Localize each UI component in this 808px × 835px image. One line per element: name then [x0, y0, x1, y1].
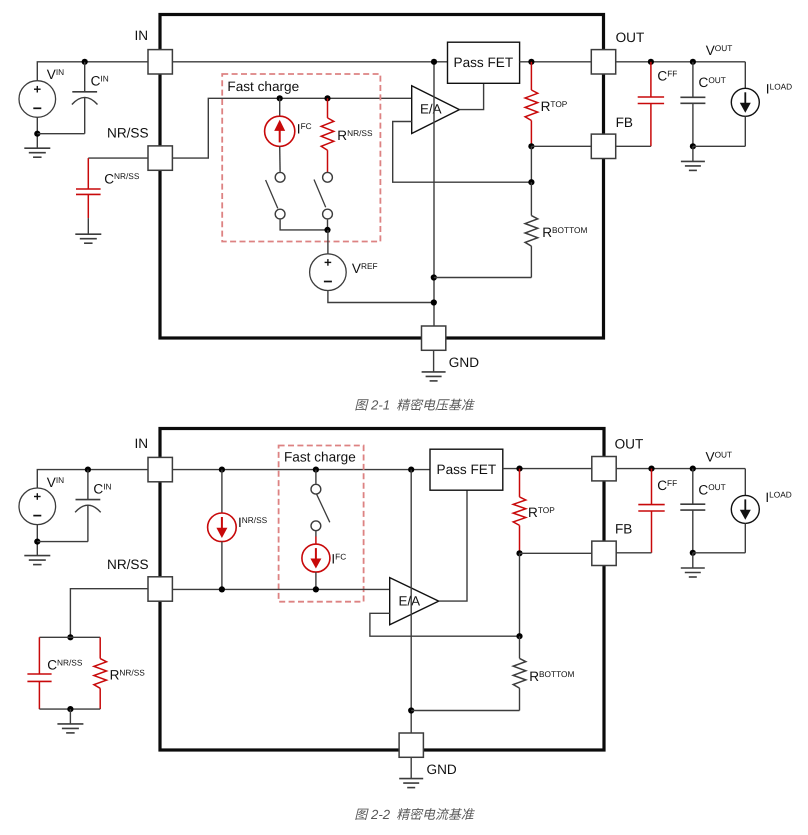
wire FB node down to RBOTTOM (top) [530, 146, 532, 182]
current source IFC (bottom) [302, 544, 330, 572]
wire RC to ground (bottom) [69, 709, 71, 724]
wire E/A output to Pass FET gate (bottom) [439, 490, 467, 601]
svg-text:IFC: IFC [331, 551, 346, 566]
svg-text:CFF: CFF [657, 69, 677, 84]
resistor RTOP (bottom) [513, 469, 526, 554]
wire NR/SS pin to CNR/SS (top) [88, 157, 148, 159]
wire COUT ground stem (bottom) [692, 553, 694, 568]
svg-text:VOUT: VOUT [706, 43, 733, 58]
label RNR/SS (bottom) [110, 667, 146, 682]
ground VIN (top) [24, 148, 50, 157]
junction IN rail / ground rail (bottom) [408, 467, 414, 473]
label CIN (bottom) [93, 481, 111, 496]
resistor RTOP (top) [525, 62, 538, 147]
svg-text:CFF: CFF [657, 478, 677, 493]
label RTOP (bottom) [528, 505, 555, 520]
wire ILOAD return (top) [693, 145, 745, 147]
ground GND pin (top) [422, 372, 446, 381]
label CNR/SS (top) [104, 171, 140, 186]
junction CIN top (top) [82, 59, 88, 65]
wire VIN bottom (top) [36, 117, 38, 148]
ground COUT (bottom) [681, 568, 705, 577]
ground COUT (top) [681, 161, 705, 170]
current source INR/SS (bottom) [208, 470, 237, 590]
caption figure 2-2 [355, 807, 475, 822]
label RBOTTOM (top) [542, 225, 587, 240]
svg-text:Pass FET: Pass FET [454, 55, 514, 70]
junction COUT bottom (bottom) [690, 550, 696, 556]
capacitor CIN (top) [37, 62, 97, 134]
junction VIN bottom (bottom) [34, 539, 40, 545]
wire COUT ground stem (top) [692, 146, 694, 161]
wire VREF top lead (top) [327, 230, 329, 254]
svg-text:CNR/SS: CNR/SS [47, 657, 83, 672]
svg-text:CIN: CIN [93, 481, 111, 496]
wire E/A inverting input to FB divider (bottom) [370, 613, 520, 636]
svg-text:RBOTTOM: RBOTTOM [529, 669, 574, 684]
resistor RBOTTOM (top) [434, 182, 538, 277]
pin NR/SS (bottom) [148, 577, 172, 601]
wire CFF to FB pin (bottom) [616, 552, 651, 554]
svg-text:Pass FET: Pass FET [437, 462, 497, 477]
junction INR/SS top (bottom) [219, 467, 225, 473]
ground RC network (bottom) [57, 724, 83, 733]
wire NR/SS pin to error amp noninverting input (top) [172, 98, 411, 158]
junction VIN bottom (top) [34, 131, 40, 137]
wire OUT pin to VOUT rail (top) [616, 61, 746, 63]
block Pass FET (top) [448, 42, 520, 83]
capacitor CNR/SS (bottom) [27, 637, 51, 709]
label IN (bottom) [135, 436, 149, 451]
wire Pass FET to OUT pin (top) [520, 61, 592, 63]
label CFF (bottom) [657, 478, 677, 493]
label CNR/SS (bottom) [47, 657, 83, 672]
svg-text:COUT: COUT [699, 75, 726, 90]
label ILOAD (top) [766, 82, 792, 97]
junction CFF top (top) [648, 59, 654, 65]
junction switch top (bottom) [313, 467, 319, 473]
svg-text:IN: IN [135, 436, 149, 451]
svg-text:GND: GND [427, 762, 457, 777]
label CIN (top) [91, 73, 109, 88]
junction COUT top (top) [690, 59, 696, 65]
IC boundary box (top diagram) [160, 15, 604, 339]
svg-text:ILOAD: ILOAD [765, 490, 791, 505]
junction RBOTTOM return (bottom) [408, 707, 414, 713]
junction INR/SS bottom (bottom) [219, 586, 225, 592]
svg-text:RNR/SS: RNR/SS [337, 128, 373, 143]
junction COUT bottom (top) [690, 143, 696, 149]
label OUT (top) [616, 30, 645, 45]
ground CNR/SS (top) [75, 234, 101, 243]
label COUT (bottom) [698, 482, 725, 497]
label GND (top) [449, 355, 479, 370]
wire VREF to ground rail (top) [328, 291, 434, 303]
switch S2 (top) [314, 172, 332, 219]
junction RTOP bottom / FB (bottom) [516, 550, 522, 556]
label NR/SS (bottom) [107, 557, 149, 572]
label CFF (top) [657, 69, 677, 84]
block Pass FET (bottom) [430, 449, 503, 490]
switch S1 (bottom) [311, 484, 330, 530]
svg-text:NR/SS: NR/SS [107, 125, 149, 140]
junction IFC bottom (bottom) [313, 586, 319, 592]
junction RBOTTOM return (top) [431, 274, 437, 280]
wire FB node down to RBOTTOM (bottom) [519, 553, 521, 636]
wire IN rail to Pass FET (top) [172, 61, 447, 63]
wire IFC bottom lead (bottom) [315, 572, 317, 589]
capacitor CFF (top) [638, 62, 664, 147]
svg-text:RBOTTOM: RBOTTOM [542, 225, 587, 240]
capacitor COUT (top) [680, 62, 705, 147]
wire FB node to FB pin (top) [531, 145, 591, 147]
svg-text:VOUT: VOUT [706, 449, 733, 464]
junction RTOP top (bottom) [516, 466, 522, 472]
junction RNR/SS top (top) [324, 95, 330, 101]
label IFC (bottom) [331, 551, 346, 566]
junction RTOP bottom / FB (top) [528, 143, 534, 149]
pin IN (bottom) [148, 457, 172, 481]
wire IFC to switch (top) [279, 146, 281, 172]
current source ILOAD (bottom) [731, 469, 759, 553]
wire CFF to FB pin (top) [616, 145, 651, 147]
svg-text:OUT: OUT [616, 30, 645, 45]
svg-text:RTOP: RTOP [541, 99, 568, 114]
label VIN (top) [47, 67, 64, 82]
svg-text:CNR/SS: CNR/SS [104, 171, 140, 186]
wire Pass FET to OUT pin (bottom) [503, 468, 592, 470]
svg-text:CIN: CIN [91, 73, 109, 88]
label INR/SS (bottom) [238, 515, 268, 530]
pin GND (bottom) [399, 733, 423, 757]
junction CFF top (bottom) [648, 466, 654, 472]
junction switch rail (top) [324, 227, 330, 233]
svg-text:COUT: COUT [698, 482, 725, 497]
op-amp E/A (bottom) [390, 578, 439, 625]
wire IFC top lead (top) [279, 98, 281, 116]
label VIN (bottom) [47, 475, 64, 490]
wire OUT pin to VOUT rail (bottom) [616, 468, 745, 470]
svg-text:GND: GND [449, 355, 479, 370]
label RBOTTOM (bottom) [529, 669, 574, 684]
wire VIN to IN pin (top) [37, 62, 148, 81]
label ILOAD (bottom) [765, 490, 791, 505]
wire GND pin to ground (top) [433, 350, 435, 371]
resistor RNR/SS (bottom) [94, 637, 107, 709]
junction CIN top (bottom) [85, 467, 91, 473]
junction VREF return (top) [431, 299, 437, 305]
svg-text:INR/SS: INR/SS [238, 515, 268, 530]
label IN (top) [135, 28, 149, 43]
capacitor COUT (bottom) [680, 469, 705, 553]
svg-text:E/A: E/A [420, 102, 442, 117]
IC boundary box (bottom diagram) [160, 429, 604, 751]
label FB (bottom) [615, 522, 632, 537]
svg-text:IN: IN [135, 28, 149, 43]
capacitor CNR/SS (top) [76, 158, 101, 234]
svg-text:2-2: 2-2 [370, 807, 391, 822]
internal ground rail vertical (bottom) [410, 470, 412, 733]
label COUT (top) [699, 75, 726, 90]
pin OUT (bottom) [592, 457, 616, 481]
current source IFC (top) [265, 116, 295, 146]
svg-text:FB: FB [616, 115, 633, 130]
label Fast charge (bottom) [284, 450, 356, 465]
current source ILOAD (top) [731, 62, 759, 147]
svg-text:2-1: 2-1 [370, 398, 390, 413]
svg-text:FB: FB [615, 522, 632, 537]
wire RC top rail (bottom) [39, 636, 100, 638]
internal ground rail vertical (top) [433, 62, 435, 326]
label FB (top) [616, 115, 633, 130]
wire switch S2 bottom (top) [327, 220, 329, 230]
svg-text:VIN: VIN [47, 475, 64, 490]
pin OUT (top) [591, 50, 615, 74]
wire VIN bottom (bottom) [36, 525, 38, 556]
label VOUT (bottom) [706, 449, 733, 464]
label Fast charge (top) [227, 79, 299, 94]
junction RBOTTOM top (top) [528, 179, 534, 185]
label RNR/SS (top) [337, 128, 373, 143]
junction RC top (bottom) [67, 634, 73, 640]
voltage source VREF (top) [310, 254, 347, 291]
pin FB (bottom) [592, 541, 616, 565]
wire RC bottom rail (bottom) [39, 708, 100, 710]
fast charge dashed box (top) [222, 74, 380, 242]
resistor RBOTTOM (bottom) [411, 636, 526, 710]
svg-text:VREF: VREF [352, 261, 378, 276]
switch S1 (top) [266, 172, 285, 219]
junction COUT top (bottom) [690, 466, 696, 472]
junction IN rail / ground rail (top) [431, 59, 437, 65]
wire GND pin to ground (bottom) [410, 757, 412, 778]
wire IN rail to Pass FET (bottom) [172, 469, 430, 471]
wire ILOAD return (bottom) [693, 552, 746, 554]
label NR/SS (top) [107, 125, 149, 140]
label GND (bottom) [427, 762, 457, 777]
wire NR/SS pin to RC network (bottom) [70, 589, 148, 638]
svg-text:Fast charge: Fast charge [227, 79, 299, 94]
wire switch top lead (bottom) [315, 470, 317, 484]
label IFC (top) [297, 121, 312, 136]
capacitor CIN (bottom) [37, 470, 100, 542]
svg-text:NR/SS: NR/SS [107, 557, 149, 572]
ground GND pin (bottom) [399, 779, 423, 788]
wire switch S1 bottom (top) [280, 220, 328, 230]
resistor RNR/SS (top) [321, 98, 334, 172]
svg-text:OUT: OUT [615, 437, 644, 452]
junction RBOTTOM top (bottom) [516, 633, 522, 639]
voltage source VIN (top) [19, 81, 56, 118]
svg-text:IFC: IFC [297, 121, 312, 136]
svg-text:VIN: VIN [47, 67, 64, 82]
fast charge dashed box (bottom) [279, 446, 364, 602]
junction RTOP top (top) [528, 59, 534, 65]
capacitor CFF (bottom) [638, 469, 664, 553]
voltage source VIN (bottom) [19, 488, 56, 525]
label OUT (bottom) [615, 437, 644, 452]
ground VIN (bottom) [24, 556, 50, 565]
svg-text:ILOAD: ILOAD [766, 82, 792, 97]
pin FB (top) [591, 134, 615, 158]
label RTOP (top) [541, 99, 568, 114]
pin GND (top) [422, 326, 446, 350]
junction IFC top (top) [277, 95, 283, 101]
pin IN (top) [148, 50, 172, 74]
wire VIN to IN pin (bottom) [37, 470, 148, 488]
svg-text:RTOP: RTOP [528, 505, 555, 520]
op-amp E/A (top) [412, 86, 460, 134]
svg-text:RNR/SS: RNR/SS [110, 667, 146, 682]
wire switch to IFC (bottom) [315, 531, 317, 545]
label VOUT (top) [706, 43, 733, 58]
wire E/A inverting input to FB divider (top) [393, 122, 532, 183]
label VREF (top) [352, 261, 378, 276]
wire NR/SS rail to error amp (bottom) [172, 588, 389, 590]
svg-text:E/A: E/A [399, 594, 421, 609]
caption figure 2-1 [355, 398, 475, 413]
wire FB node to FB pin (bottom) [520, 552, 592, 554]
svg-text:Fast charge: Fast charge [284, 450, 356, 465]
wire E/A output to Pass FET gate (top) [459, 83, 483, 109]
junction RC bottom (bottom) [67, 706, 73, 712]
pin NR/SS (top) [148, 146, 172, 170]
